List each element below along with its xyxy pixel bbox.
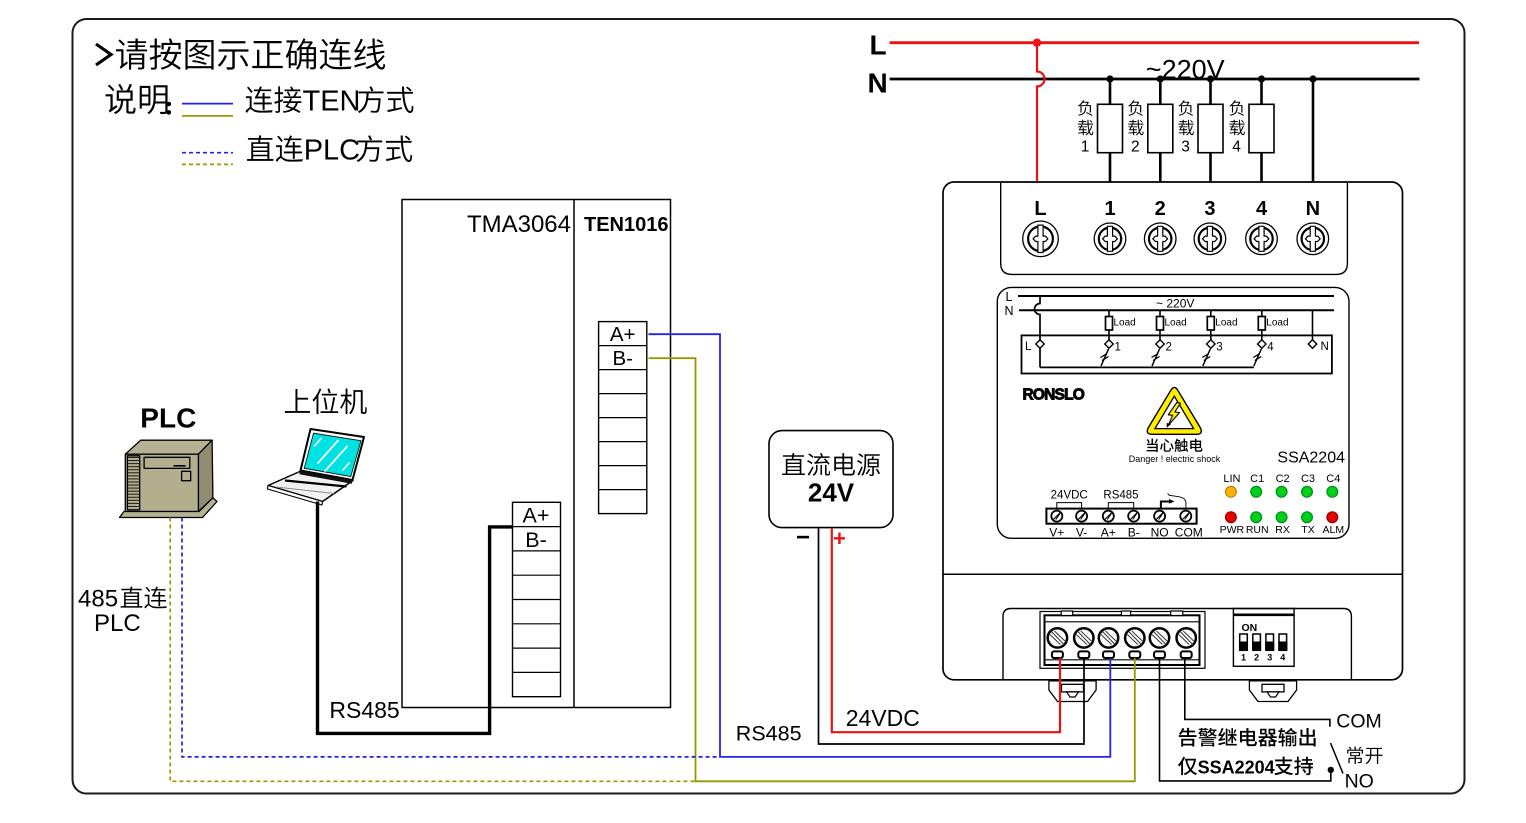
note: legend label 说明： — [106, 84, 168, 114]
panel screw A+ — [1103, 511, 1114, 522]
device lower recess panel — [1003, 609, 1351, 680]
LED C3 — [1302, 486, 1313, 497]
svg-text:V-: V- — [1076, 526, 1087, 540]
svg-text:4: 4 — [1232, 139, 1241, 156]
mini-diagram wire N to load 2 — [1159, 310, 1161, 316]
svg-text:24V: 24V — [808, 478, 855, 508]
wire red positive 24VDC — [832, 528, 1060, 733]
module TMA3064/TEN1016 outline — [402, 200, 671, 708]
note: label 当心触电 — [1147, 439, 1203, 452]
panel screw V- — [1076, 511, 1087, 522]
svg-text:A+: A+ — [1101, 526, 1116, 540]
svg-text:3: 3 — [1204, 198, 1215, 220]
svg-text:ALM: ALM — [1323, 524, 1345, 536]
screw terminal 4 — [1246, 223, 1278, 255]
LED RUN — [1251, 512, 1262, 523]
LED C2 — [1276, 486, 1287, 497]
svg-text:L: L — [1006, 290, 1013, 304]
mini-diagram wire N to load 3 — [1210, 310, 1212, 316]
mini-diagram wire load 3 to terminal — [1210, 330, 1212, 341]
terminal block tab — [1121, 611, 1130, 616]
svg-text:3: 3 — [1267, 653, 1272, 663]
DIP switch block — [1233, 609, 1294, 667]
terminal block top line — [1045, 621, 1200, 623]
svg-text:N: N — [1321, 341, 1329, 353]
svg-text:L: L — [1034, 198, 1046, 220]
wire blue solid TEN1016 A+ to device A+ — [649, 334, 1111, 757]
mini-diagram wire N to load 4 — [1261, 310, 1263, 316]
DIP switch 1 — [1240, 634, 1248, 650]
note: legend text 连接TEN方式 — [245, 86, 301, 113]
block wire opening 4 — [1129, 651, 1140, 658]
svg-text:NO: NO — [1151, 526, 1169, 540]
relay NO contact dot — [1328, 767, 1334, 773]
mini-diagram wire load 4 to terminal — [1261, 330, 1263, 341]
svg-text:SSA2204: SSA2204 — [1198, 758, 1275, 778]
load resistor 负载3 — [1198, 104, 1223, 152]
LED TX — [1302, 512, 1313, 523]
LED PWR — [1226, 512, 1237, 523]
wire N rail to device terminal N — [1312, 79, 1315, 183]
wire load 4 to device terminal 4 — [1260, 153, 1263, 183]
svg-text:~ 220V: ~ 220V — [1156, 297, 1194, 311]
wire NO (black) — [1160, 658, 1331, 781]
panel terminal strip — [1046, 509, 1196, 524]
mini-diagram terminal 3 — [1207, 340, 1215, 348]
svg-text:N: N — [868, 68, 888, 99]
svg-text:24VDC: 24VDC — [846, 705, 920, 731]
mini-diagram wire N to load 1 — [1108, 310, 1110, 316]
mini-diagram terminal N — [1308, 340, 1316, 348]
svg-text:PLC: PLC — [94, 610, 141, 637]
mini-diagram switch 4 — [1254, 349, 1262, 366]
block wire opening 6 — [1181, 651, 1192, 658]
svg-text:C1: C1 — [1250, 473, 1264, 485]
terminal strip TMA3064 (8 cells) — [513, 502, 561, 696]
terminal strip TEN1016 (8 cells) — [599, 322, 647, 514]
svg-text:SSA2204: SSA2204 — [1277, 449, 1345, 466]
svg-text:2: 2 — [1131, 139, 1140, 156]
load resistor 负载4 — [1249, 104, 1274, 152]
device front panel — [997, 287, 1349, 538]
wire olive solid TEN1016 B- to device B- — [649, 358, 1135, 781]
mini-diagram switch 2 — [1152, 349, 1160, 366]
panel screw COM — [1180, 511, 1191, 522]
block wire opening 2 — [1078, 651, 1089, 658]
warning triangle 当心触电 — [1147, 387, 1201, 434]
junction dot on N rail (load 1) — [1106, 75, 1113, 82]
junction dot on N rail (N drop) — [1309, 75, 1316, 82]
screw terminal 3 — [1194, 223, 1226, 255]
wire RS485 cable laptop to TMA3064 A+ (thick black) — [318, 502, 513, 734]
terminal block tab — [1061, 611, 1073, 616]
device SSA2204 outer body — [943, 182, 1403, 680]
svg-text:ON: ON — [1242, 622, 1258, 634]
mini-diagram bottom bus wire — [1040, 366, 1254, 368]
legend swatch dashed blue (direct PLC) — [182, 152, 233, 154]
wire load 1 to device terminal 1 — [1109, 153, 1112, 183]
PLC controller drawing — [120, 440, 218, 517]
svg-text:RS485: RS485 — [329, 697, 399, 723]
svg-text:3: 3 — [1181, 139, 1190, 156]
note: title 请按图示正确连线 — [96, 44, 111, 65]
device lower separation line — [943, 573, 1403, 575]
panel screw NO — [1154, 511, 1165, 522]
terminal block plate — [1040, 612, 1205, 669]
mini-diagram L line — [1018, 295, 1334, 297]
svg-text:RX: RX — [1275, 524, 1290, 536]
terminal block bottom line — [1045, 659, 1200, 661]
svg-text:Load: Load — [1114, 318, 1136, 329]
terminal block body — [1045, 615, 1200, 665]
svg-text:N: N — [1005, 304, 1014, 318]
block wire opening 3 — [1103, 651, 1114, 658]
svg-text:NO: NO — [1345, 771, 1374, 793]
note: legend text 直连PLC方式 — [247, 135, 303, 162]
DC power supply 24V box — [769, 431, 893, 528]
svg-text:+: + — [833, 526, 846, 551]
svg-text:L: L — [1025, 341, 1032, 353]
junction dot on N rail (load 2) — [1157, 75, 1164, 82]
legend swatch solid olive (TEN wiring) — [182, 115, 233, 117]
wire N rail to load 3 — [1209, 79, 1212, 104]
note: label 常开 — [1347, 747, 1382, 764]
junction dot on N rail (load 3) — [1207, 75, 1214, 82]
legend swatch solid blue (TEN wiring) — [182, 103, 233, 105]
screw terminal 1 — [1094, 223, 1126, 255]
svg-text:C4: C4 — [1326, 473, 1340, 485]
note: laptop label 上位机 — [285, 388, 367, 414]
svg-text:RONSLO: RONSLO — [1023, 387, 1085, 404]
mini-diagram wire load 1 to terminal — [1108, 330, 1110, 341]
panel relay contact symbol — [1161, 502, 1170, 509]
legend swatch dashed olive (direct PLC) — [182, 163, 233, 165]
svg-text:A+: A+ — [610, 323, 636, 346]
svg-text:COM: COM — [1175, 526, 1203, 540]
wire load 3 to device terminal 3 — [1209, 153, 1212, 183]
svg-text:1: 1 — [1104, 198, 1115, 220]
block screw 3 — [1099, 628, 1118, 647]
block screw 5 — [1150, 628, 1169, 647]
svg-text:B-: B- — [525, 528, 547, 552]
wire olive dashed PLC to RS485 B — [170, 518, 694, 782]
svg-text:RS485: RS485 — [736, 722, 802, 746]
DIP switch 3 — [1266, 634, 1274, 650]
note: label 负载3 — [1178, 100, 1193, 116]
device top terminal recess — [1001, 183, 1348, 274]
svg-text:4: 4 — [1256, 198, 1268, 220]
mini-diagram switch 1 — [1101, 349, 1109, 366]
panel screw B- — [1128, 511, 1139, 522]
note: label 负载1 — [1078, 100, 1093, 116]
svg-text:Load: Load — [1266, 318, 1288, 329]
svg-text:TX: TX — [1301, 524, 1314, 536]
screw terminal N — [1297, 223, 1329, 255]
note: label 负载2 — [1128, 100, 1143, 116]
panel screw V+ — [1051, 511, 1062, 522]
load resistor 负载1 — [1098, 104, 1123, 152]
mini-diagram terminal 1 — [1105, 340, 1113, 348]
LED LIN — [1226, 486, 1237, 497]
block screw 4 — [1125, 628, 1144, 647]
svg-text:B-: B- — [612, 347, 633, 370]
mini-diagram N line — [1019, 309, 1334, 311]
LED ALM — [1327, 512, 1338, 523]
DIP switch 2 — [1253, 634, 1261, 650]
svg-text:2: 2 — [1254, 653, 1259, 663]
svg-text:24VDC: 24VDC — [1051, 490, 1088, 502]
svg-text:485: 485 — [78, 586, 118, 613]
DIN rail clip — [1049, 681, 1096, 702]
mini-diagram load resistor 3 — [1207, 317, 1214, 331]
svg-text:N: N — [1306, 198, 1320, 220]
load resistor 负载2 — [1148, 104, 1173, 152]
svg-text:COM: COM — [1336, 711, 1382, 733]
mini-diagram load resistor 4 — [1258, 317, 1265, 331]
svg-text:4: 4 — [1280, 653, 1285, 663]
svg-text:PLC: PLC — [140, 403, 196, 434]
svg-text:A+: A+ — [523, 504, 550, 528]
mini-diagram load resistor 2 — [1157, 317, 1164, 331]
svg-text:TEN1016: TEN1016 — [584, 214, 669, 236]
wire N rail to load 2 — [1159, 79, 1162, 104]
svg-text:L: L — [870, 30, 887, 61]
note: label 负载4 — [1229, 100, 1244, 116]
block wire opening 5 — [1154, 651, 1165, 658]
svg-text:V+: V+ — [1049, 526, 1064, 540]
svg-text:TMA3064: TMA3064 — [467, 211, 571, 238]
mini-diagram terminal 2 — [1156, 340, 1164, 348]
wire blue dashed PLC to RS485 A — [182, 518, 719, 757]
LED C4 — [1327, 486, 1338, 497]
svg-text:RUN: RUN — [1246, 524, 1269, 536]
mini-diagram terminal 4 — [1258, 340, 1266, 348]
wire red L drop to device terminal L (with hop over N) — [1037, 43, 1045, 184]
screw terminal 2 — [1144, 223, 1176, 255]
svg-text:−: − — [796, 524, 810, 551]
wire L mains (red) — [890, 41, 1419, 44]
block screw 6 — [1177, 628, 1196, 647]
note: label 告警继电器输出 — [1179, 728, 1316, 747]
svg-text:Load: Load — [1165, 318, 1187, 329]
svg-text:Danger ! electric shock: Danger ! electric shock — [1129, 454, 1221, 464]
svg-text:PLC: PLC — [304, 135, 360, 167]
mini-diagram switch 3 — [1203, 349, 1211, 366]
note: label 仅SSA2204支持 — [1178, 757, 1197, 775]
DIP switch 4 — [1279, 634, 1287, 650]
LED RX — [1276, 512, 1287, 523]
svg-text:C2: C2 — [1276, 473, 1290, 485]
screw terminal L — [1023, 221, 1059, 257]
LED C1 — [1251, 486, 1262, 497]
terminal block tab — [1171, 611, 1183, 616]
svg-text:4: 4 — [1267, 342, 1274, 354]
svg-text:3: 3 — [1216, 342, 1222, 354]
mini-diagram relay contact box — [1022, 335, 1332, 373]
svg-text:2: 2 — [1166, 342, 1172, 354]
DIN rail clip — [1249, 681, 1296, 702]
svg-text:Load: Load — [1215, 318, 1237, 329]
block screw 1 — [1048, 628, 1067, 647]
svg-text:2: 2 — [1155, 198, 1166, 220]
block wire opening 1 — [1052, 651, 1063, 658]
svg-text:LIN: LIN — [1223, 473, 1240, 485]
svg-text:C3: C3 — [1301, 473, 1315, 485]
svg-text:1: 1 — [1115, 342, 1121, 354]
mini-diagram wire load 2 to terminal — [1159, 330, 1161, 341]
mini-diagram wire L drop with hop — [1035, 296, 1041, 367]
junction dot on N rail (load 4) — [1258, 75, 1265, 82]
svg-text:B-: B- — [1128, 526, 1140, 540]
svg-text:TEN: TEN — [303, 86, 361, 118]
mini-diagram terminal L — [1036, 340, 1044, 348]
wire N mains (black) — [890, 78, 1420, 81]
svg-text:RS485: RS485 — [1103, 490, 1138, 502]
mini-diagram wire N terminal link — [1312, 310, 1314, 340]
wire black negative 24VDC — [819, 528, 1085, 744]
wire N rail to load 4 — [1260, 79, 1263, 104]
wire COM (black) — [1185, 658, 1330, 727]
wire load 2 to device terminal 2 — [1159, 153, 1162, 183]
svg-text:1: 1 — [1081, 139, 1090, 156]
svg-text:1: 1 — [1241, 653, 1246, 663]
mini-diagram load resistor 1 — [1106, 317, 1113, 331]
junction dot on L rail — [1033, 39, 1041, 47]
wire N rail to load 1 — [1109, 79, 1112, 104]
relay contact blade — [1331, 743, 1344, 774]
svg-text:PWR: PWR — [1220, 524, 1245, 536]
block screw 2 — [1074, 628, 1093, 647]
laptop (host PC) drawing — [268, 471, 353, 502]
